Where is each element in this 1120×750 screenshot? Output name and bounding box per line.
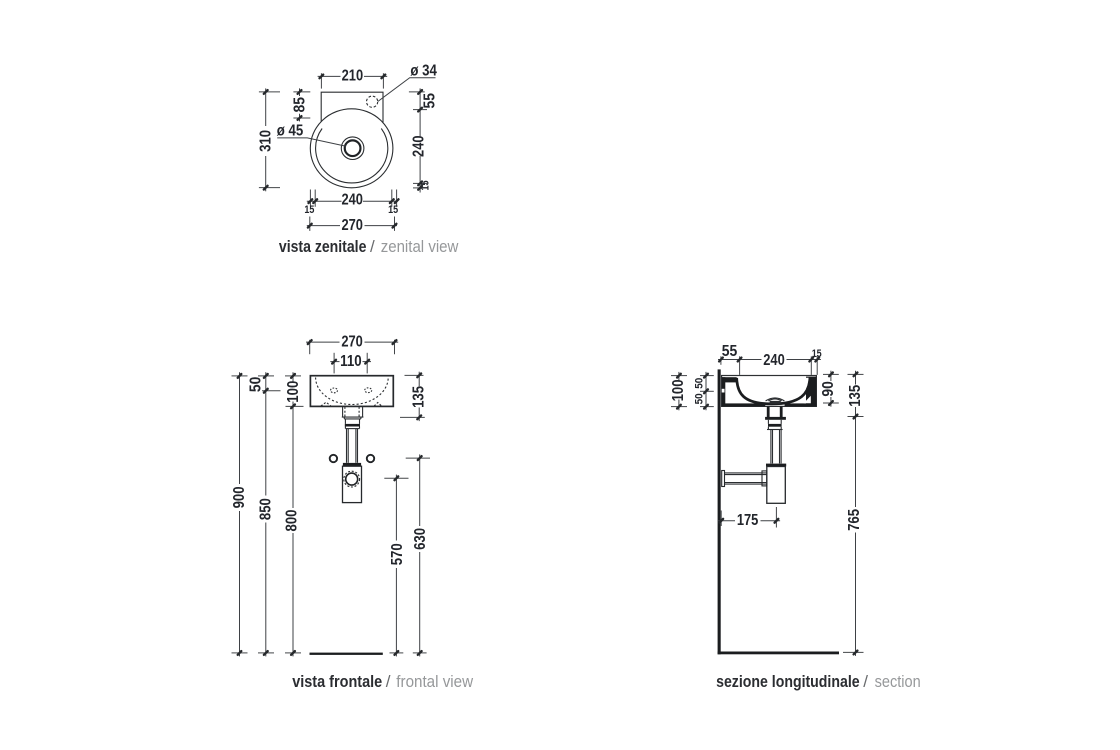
svg-text:15: 15 xyxy=(812,348,822,360)
dim 100 + 800 (front left inner) xyxy=(284,372,304,656)
svg-text:55: 55 xyxy=(421,93,438,109)
tap hole dashed circle ø34 xyxy=(367,96,378,107)
svg-text:ø 34: ø 34 xyxy=(410,62,437,79)
horizontal waste pipe (section) xyxy=(722,471,767,487)
svg-text:50: 50 xyxy=(693,378,705,389)
basin ceramic bottom band right (section) xyxy=(785,403,817,406)
svg-text:50: 50 xyxy=(693,393,705,404)
basin ceramic top-left band (section) xyxy=(722,377,737,382)
bowl thick arc (section) xyxy=(737,378,810,404)
svg-text:90: 90 xyxy=(820,381,837,397)
dim 270 (zenital bottom row2) xyxy=(307,217,397,234)
svg-text:630: 630 xyxy=(412,528,429,550)
dim 630 (front right) xyxy=(406,454,430,656)
svg-text:/: / xyxy=(370,237,375,256)
dim 55 / 240 / 15 (section top) xyxy=(718,343,822,375)
svg-text:270: 270 xyxy=(341,217,363,234)
svg-text:310: 310 xyxy=(258,130,275,152)
svg-text:ø 45: ø 45 xyxy=(277,123,304,140)
svg-text:55: 55 xyxy=(722,343,738,360)
basin body rect (front) xyxy=(310,376,393,407)
svg-text:210: 210 xyxy=(342,68,364,85)
hidden drain slope dashes left xyxy=(321,402,331,406)
dim 90 (section right of basin) xyxy=(820,371,839,407)
dim 135 (front right) xyxy=(400,372,428,421)
svg-text:15: 15 xyxy=(388,204,398,216)
floor (section) xyxy=(718,652,839,655)
svg-text:zenital view: zenital view xyxy=(381,237,459,256)
drain plug dark band (section) xyxy=(770,401,781,404)
svg-text:100: 100 xyxy=(670,379,687,401)
basin outline rect (section) xyxy=(722,376,817,407)
svg-text:570: 570 xyxy=(389,543,406,565)
svg-text:900: 900 xyxy=(231,486,248,508)
svg-text:/: / xyxy=(386,672,391,691)
dim 100 (section left) xyxy=(670,372,687,410)
svg-text:135: 135 xyxy=(411,386,428,408)
dim 210 (zenital top) xyxy=(318,68,388,89)
svg-text:175: 175 xyxy=(737,512,759,529)
wall fixing circle left (front) xyxy=(330,455,337,462)
bowl interior white (section) xyxy=(737,378,808,403)
svg-text:240: 240 xyxy=(341,192,363,209)
white notch right (section) xyxy=(804,396,811,403)
svg-text:240: 240 xyxy=(763,352,785,369)
siphon trap body (section) xyxy=(767,467,786,504)
drain outer circle (zenital) xyxy=(341,137,364,160)
siphon trap body (front) xyxy=(343,466,362,502)
svg-text:800: 800 xyxy=(284,509,301,531)
drain dome cap (section) xyxy=(766,398,785,401)
floor line (front) xyxy=(310,653,383,655)
dim 50 50 (section left inner) xyxy=(693,372,714,410)
dim 270 (front top) xyxy=(306,334,398,355)
svg-text:50: 50 xyxy=(248,377,265,393)
svg-text:110: 110 xyxy=(340,353,362,370)
svg-text:vista zenitale: vista zenitale xyxy=(279,237,367,256)
siphon trap inner circle (front) xyxy=(346,473,358,485)
svg-text:section: section xyxy=(875,672,921,691)
svg-text:frontal view: frontal view xyxy=(396,672,473,691)
dim 175 (section trap) xyxy=(718,507,780,529)
drain pipe (section) xyxy=(771,430,781,464)
siphon trap dotted circle (front) xyxy=(344,471,360,487)
svg-text:15: 15 xyxy=(304,204,314,216)
dim 15/240/15 (zenital bottom row1) xyxy=(304,190,398,216)
back ledge outline (zenital) xyxy=(321,92,383,123)
drain inner circle (zenital) xyxy=(345,140,361,156)
svg-text:135: 135 xyxy=(847,385,864,407)
dim 310 (zenital far left) xyxy=(258,88,281,191)
fixing hole dotted left (front) xyxy=(331,388,338,393)
ceramic right block (section) xyxy=(806,377,816,407)
svg-text:/: / xyxy=(863,672,868,691)
drain flange right wall (section) xyxy=(780,406,783,417)
fixing hole dotted right (front) xyxy=(365,388,372,393)
drain flange (front) xyxy=(342,407,364,418)
svg-text:240: 240 xyxy=(410,135,427,157)
wall fixing circle right (front) xyxy=(367,455,374,462)
svg-text:100: 100 xyxy=(285,381,302,403)
dim 85 (zenital left) xyxy=(291,88,310,121)
svg-text:850: 850 xyxy=(258,498,275,520)
tailpiece step (section) xyxy=(767,420,783,430)
leader line ø45 xyxy=(277,138,346,146)
svg-text:sezione longitudinale: sezione longitudinale xyxy=(716,672,860,691)
svg-text:vista frontale: vista frontale xyxy=(292,672,382,691)
leader line ø34 xyxy=(378,78,436,102)
drain flange bottom band (section) xyxy=(765,417,786,420)
basin outer rim circle (zenital) xyxy=(310,109,393,188)
drain pipe (front) xyxy=(347,429,358,463)
wall (section) xyxy=(718,369,721,654)
svg-text:270: 270 xyxy=(341,334,363,351)
dim 900 (front left outer) xyxy=(231,372,248,656)
drain tailpiece upper (front) xyxy=(344,417,361,429)
dim 135 + 765 (section far right) xyxy=(843,371,864,656)
siphon trap top band (front) xyxy=(343,463,361,466)
dim 50 + 850 (front left) xyxy=(248,372,281,656)
basin inner rim arc (zenital) xyxy=(316,129,388,183)
drain flange left wall (section) xyxy=(767,406,770,417)
fixing hole notch white (section) xyxy=(722,389,725,393)
siphon trap top band (section) xyxy=(766,464,786,467)
dim 570 (front right inner) xyxy=(384,475,408,657)
hidden drain slope dashes right xyxy=(374,403,382,407)
basin ceramic bottom band left (section) xyxy=(722,403,765,406)
basin ceramic left bar (section) xyxy=(722,377,725,406)
dim 110 (front) xyxy=(330,353,371,374)
hidden bowl dashed arc (front) xyxy=(316,378,389,405)
svg-text:85: 85 xyxy=(291,97,308,113)
svg-text:765: 765 xyxy=(846,509,863,531)
dim 55 / 240 / 15 (zenital right column) xyxy=(409,88,438,192)
svg-text:15: 15 xyxy=(419,181,431,191)
